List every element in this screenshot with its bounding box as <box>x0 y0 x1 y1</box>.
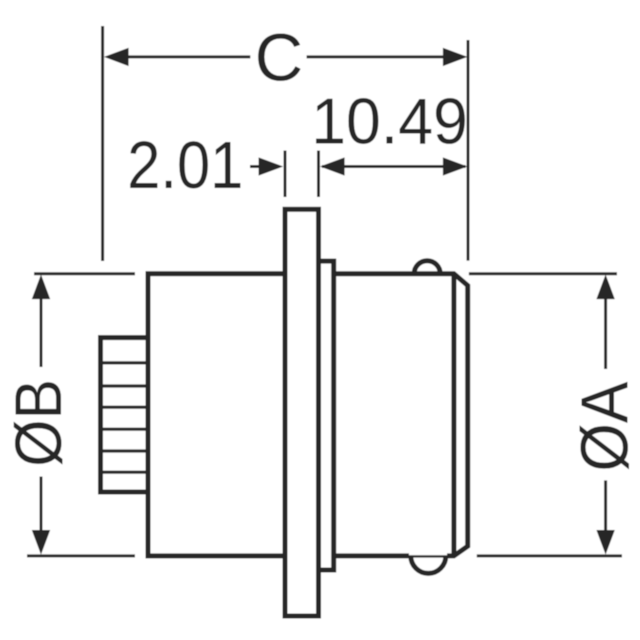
svg-text:C: C <box>255 21 303 96</box>
svg-text:2.01: 2.01 <box>127 129 243 203</box>
svg-text:10.49: 10.49 <box>311 85 468 158</box>
svg-text:ØB: ØB <box>3 379 76 467</box>
svg-text:ØA: ØA <box>566 381 640 472</box>
